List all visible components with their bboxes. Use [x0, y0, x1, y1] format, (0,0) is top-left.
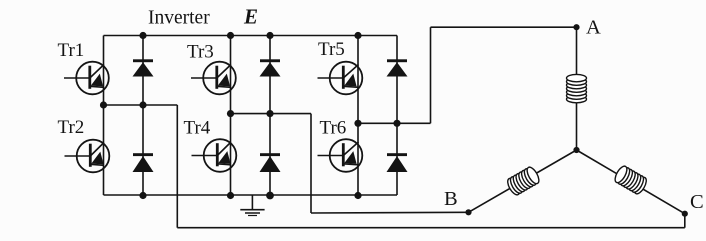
label Tr2 [58, 117, 85, 138]
inductor phase A winding [567, 74, 587, 102]
node leg2 mid / D-branch [266, 110, 273, 117]
diode D1 (upper, leg1) [133, 59, 154, 76]
svg-text:Tr2: Tr2 [58, 117, 85, 138]
svg-text:Tr5: Tr5 [318, 39, 345, 60]
wire phase A to star point [576, 27, 578, 150]
wire leg 2 (Tr3/Tr4 branch) [230, 36, 232, 196]
wire C riser [684, 214, 686, 228]
svg-text:A: A [586, 16, 601, 38]
wire diode branch D5/D6 [396, 36, 398, 196]
label E (DC link) [243, 5, 258, 29]
node star point [573, 147, 579, 153]
node top rail / leg2 [227, 32, 234, 39]
wire leg 1 (Tr1/Tr2 branch) [103, 36, 105, 196]
node bottom rail / D2 [139, 192, 146, 199]
wire star to C [577, 150, 685, 214]
node leg3 mid / D-branch [393, 120, 400, 127]
svg-text:C: C [690, 191, 704, 213]
node bottom rail / leg2 [227, 192, 234, 199]
node top rail / leg3 [354, 32, 361, 39]
svg-text:Inverter: Inverter [148, 8, 210, 29]
node C [682, 211, 688, 217]
wire run to B [311, 211, 469, 214]
inductor phase B winding [505, 165, 541, 196]
wire leg1 midpoint tap [104, 104, 178, 106]
wire diode branch D1/D2 [142, 36, 144, 196]
transistor Tr1 [64, 62, 109, 95]
wire leg3 midpoint tap [358, 122, 431, 124]
wire bottom run to C [177, 227, 685, 229]
label Tr5 [318, 39, 345, 60]
node leg3 midpoint [354, 120, 361, 127]
wire leg2 midpoint tap [231, 113, 312, 115]
label Inverter [148, 8, 210, 29]
transistor Tr5 [318, 62, 363, 95]
transistor Tr6 [318, 139, 363, 172]
label terminal A [586, 16, 601, 38]
wire star to B [469, 150, 577, 212]
svg-text:Tr1: Tr1 [58, 40, 85, 61]
transistor Tr2 [65, 140, 110, 173]
svg-text:Tr3: Tr3 [187, 42, 214, 63]
node leg2 midpoint [227, 110, 234, 117]
inductor phase C winding [613, 164, 649, 195]
node leg1 mid / D-branch [139, 101, 146, 108]
label Tr6 [320, 118, 347, 139]
svg-text:Tr6: Tr6 [320, 118, 347, 139]
wire leg3 tap riser [430, 27, 432, 123]
diode D4 (lower, leg2) [260, 153, 281, 172]
wire leg 3 (Tr5/Tr6 branch) [357, 36, 359, 196]
wire top DC rail [104, 35, 398, 37]
label Tr3 [187, 42, 214, 63]
transistor Tr4 [192, 139, 237, 172]
label terminal B [444, 188, 458, 210]
node A [573, 24, 579, 30]
wire leg1 tap drop [176, 105, 178, 228]
wire bottom DC rail [104, 194, 398, 196]
transistor Tr3 [191, 62, 236, 95]
diode D3 (upper, leg2) [260, 59, 281, 76]
label terminal C [690, 191, 704, 213]
svg-text:E: E [243, 5, 258, 29]
diode D2 (lower, leg1) [133, 153, 154, 172]
diode D5 (upper, leg3) [387, 59, 408, 76]
wire run to A [431, 26, 577, 28]
node leg1 midpoint [100, 101, 107, 108]
node bottom rail / D4 [266, 192, 274, 200]
wire leg2 tap drop [310, 114, 312, 213]
svg-text:B: B [444, 188, 458, 210]
label Tr1 [58, 40, 85, 61]
node top rail / D3 [266, 32, 273, 39]
node B [465, 209, 471, 215]
node bottom rail / leg3 [354, 192, 361, 199]
ground [240, 195, 264, 216]
node top rail / D1 [139, 32, 146, 39]
wire diode branch D3/D4 [269, 36, 271, 196]
label Tr4 [184, 118, 211, 139]
svg-text:Tr4: Tr4 [184, 118, 211, 139]
diode D6 (lower, leg3) [387, 153, 408, 172]
